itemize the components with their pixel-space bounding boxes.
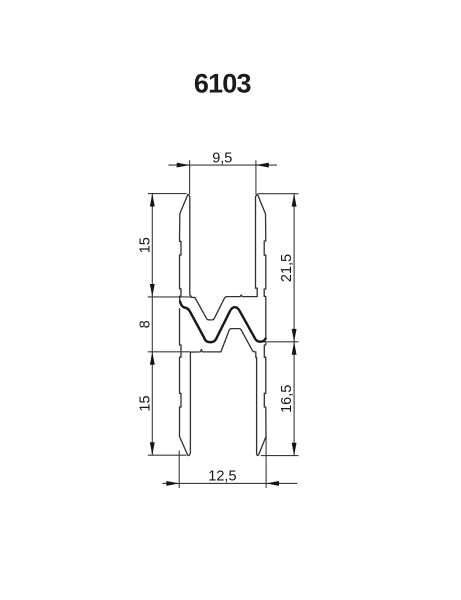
svg-text:9,5: 9,5 [212, 151, 232, 167]
svg-text:6103: 6103 [194, 69, 252, 99]
svg-text:12,5: 12,5 [208, 469, 236, 485]
svg-text:15: 15 [138, 395, 154, 411]
svg-text:8: 8 [138, 320, 154, 328]
svg-text:16,5: 16,5 [279, 385, 295, 413]
svg-text:15: 15 [138, 237, 154, 253]
svg-text:21,5: 21,5 [279, 254, 295, 282]
